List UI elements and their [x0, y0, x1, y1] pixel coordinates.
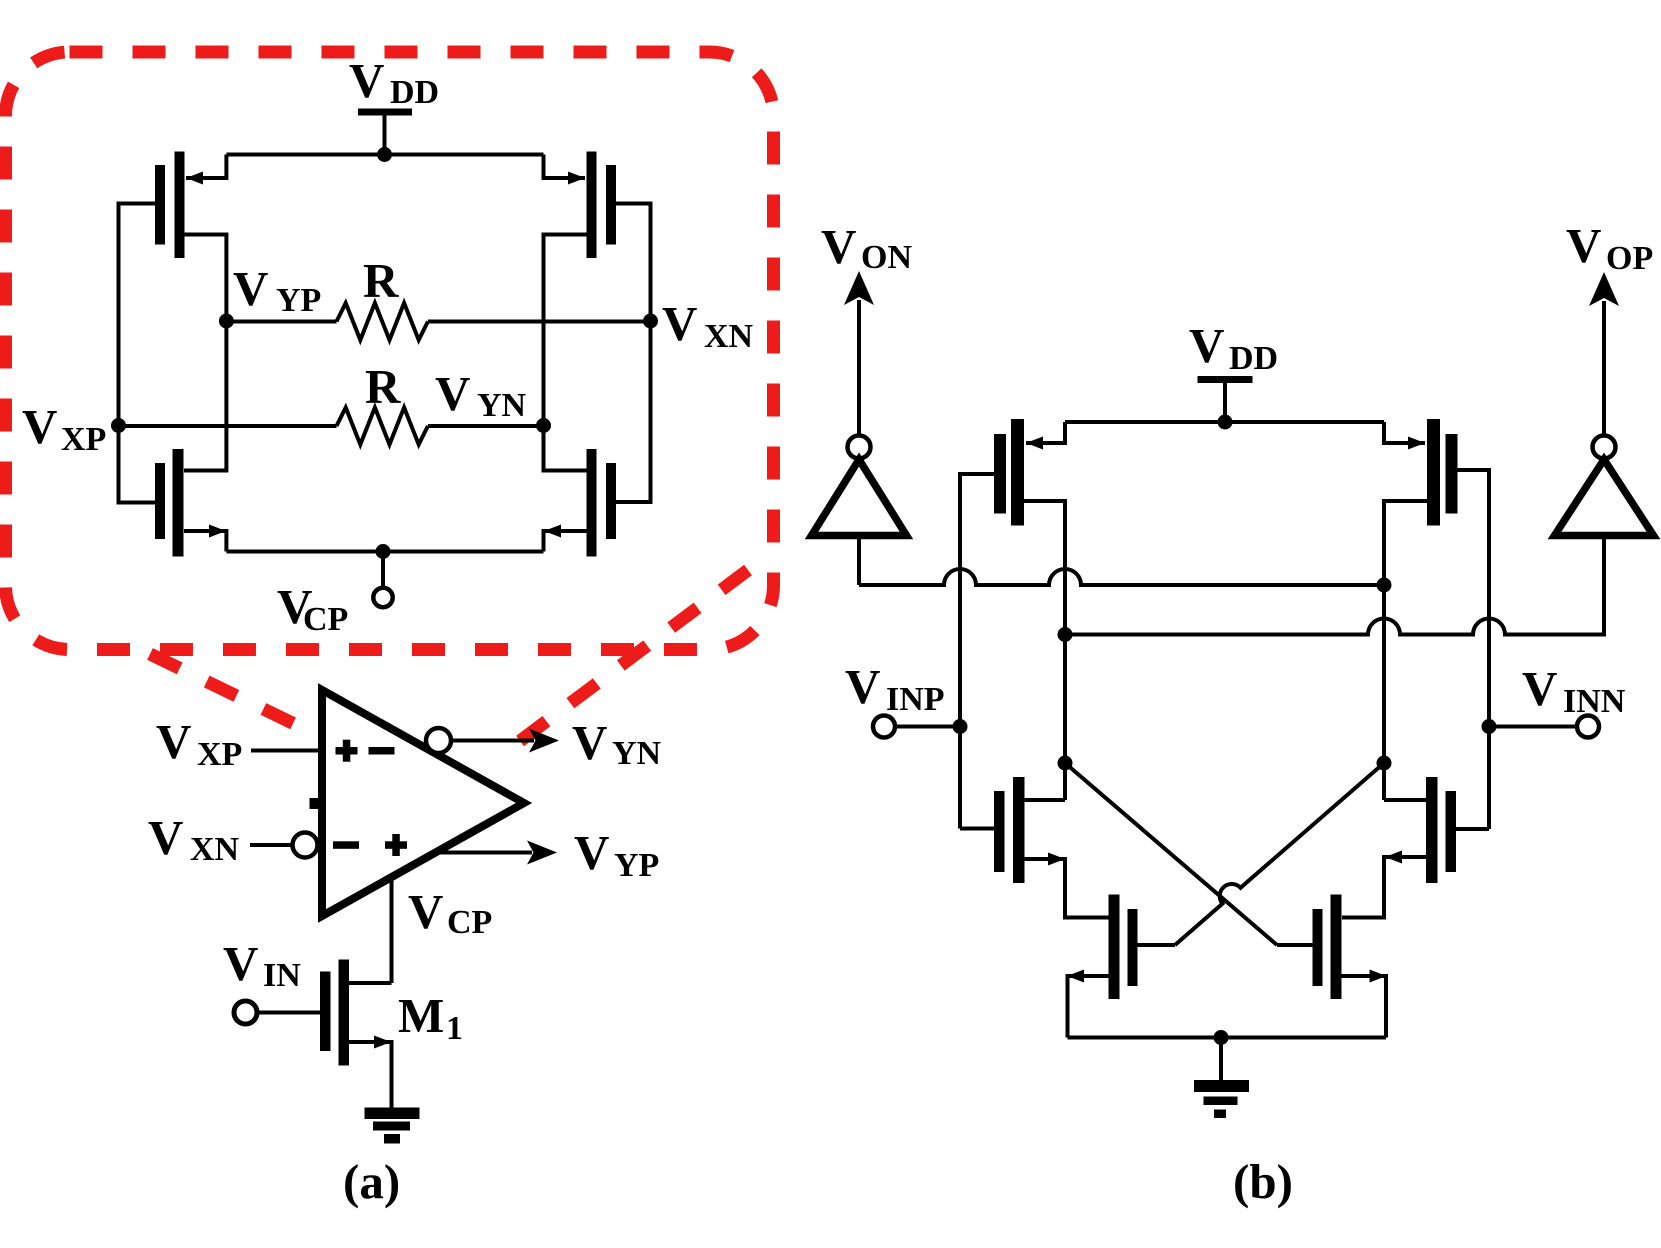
svg-text:XN: XN: [704, 318, 754, 355]
wire gate lead mid-left NMOS: [960, 827, 994, 831]
VDD supply bar (b): [1198, 376, 1253, 383]
terminal VCP: [381, 552, 385, 587]
wire gate lead mid-right NMOS: [1456, 827, 1489, 831]
transistor NMOS bottom-right : channel bar: [1331, 895, 1342, 1000]
terminal VINP: [873, 716, 895, 738]
wire drain lead bottom-right NMOS: [544, 426, 587, 471]
svg-text:OP: OP: [1606, 240, 1653, 277]
wire cross-couple diagonal left-to-right-gate: [1065, 763, 1277, 945]
wire output VYP with arrow: [436, 851, 532, 855]
node VDD junction: [377, 147, 392, 162]
transistor NMOS mid-right : channel bar: [1426, 777, 1438, 883]
svg-text:V: V: [156, 714, 191, 769]
svg-text:V: V: [1189, 318, 1224, 373]
svg-text:YP: YP: [276, 282, 321, 319]
wire source lead M1: [349, 1042, 392, 1108]
svg-text:V: V: [349, 53, 384, 108]
wire/arrow output VON: [857, 300, 861, 436]
wire source lead bottom-left NMOS: [1068, 976, 1109, 1038]
wire/arrow output VOP: [1602, 301, 1606, 436]
inverter left: [848, 436, 871, 459]
wire drain lead top-right PMOS: [544, 235, 587, 426]
tick on comparator left edge: [310, 798, 320, 809]
svg-text:V: V: [845, 659, 880, 714]
wire drain lead top-left PMOS: [185, 235, 227, 322]
svg-text:V: V: [408, 884, 443, 939]
transistor NMOS bottom-left : channel bar: [173, 449, 184, 557]
node cross-couple right: [1377, 756, 1392, 771]
wire source lead bottom-left NMOS: [184, 531, 226, 552]
VDD supply bar: [358, 109, 412, 116]
wire drain lead left PMOS (b): [1024, 501, 1065, 800]
svg-text:V: V: [821, 219, 856, 274]
balloon tail left: [150, 654, 313, 733]
transistor NMOS mid-left : channel bar: [1013, 777, 1025, 883]
wire output VYN with arrow: [451, 739, 534, 743]
wire gate stub bottom-right NMOS: [1277, 943, 1313, 947]
wire source lead left PMOS (b): [1026, 422, 1065, 443]
svg-text:INP: INP: [886, 681, 945, 718]
svg-text:YP: YP: [614, 847, 659, 884]
transistor NMOS mid-right : gate bar: [1446, 791, 1457, 872]
wire gate lead top-right PMOS: [616, 204, 651, 322]
plus sign input2: [385, 841, 407, 849]
transistor NMOS bottom-right : gate bar: [606, 463, 616, 539]
balloon tail right: [504, 570, 748, 753]
svg-text:M: M: [398, 988, 444, 1043]
svg-text:V: V: [435, 366, 470, 421]
transistor PMOS top-right : gate bar: [606, 165, 616, 245]
svg-text:V: V: [662, 296, 697, 351]
transistor PMOS top-left : channel bar: [175, 152, 185, 259]
wire input VXP: [251, 749, 318, 753]
wire bottom rail (b): [1068, 1036, 1387, 1040]
svg-text:YN: YN: [612, 735, 662, 772]
node VINN: [1482, 719, 1497, 734]
transistor M1 : gate bar: [320, 972, 331, 1052]
wire upper cross line with hops: [859, 569, 1384, 585]
wire lower cross line with hops: [1065, 536, 1604, 635]
wire gate lead right PMOS (b): [1456, 470, 1489, 829]
red dashed balloon: [6, 52, 774, 650]
wire top rail: [226, 153, 543, 157]
transistor PMOS top-right : channel bar: [587, 152, 597, 259]
transistor PMOS right (b) : gate bar: [1446, 434, 1458, 514]
node VYN: [536, 418, 551, 433]
svg-text:(a): (a): [343, 1154, 400, 1209]
svg-text:1: 1: [446, 1010, 463, 1047]
wire top rail (b): [1065, 420, 1384, 424]
node right drain to upper line: [1377, 578, 1392, 593]
transistor PMOS right (b) : channel bar: [1427, 419, 1440, 526]
node VDD junction (b): [1218, 415, 1233, 430]
svg-text:XN: XN: [190, 831, 240, 868]
op-amp comparator triangle: [322, 690, 524, 916]
node ground junction (b): [1214, 1030, 1229, 1045]
node VINP: [953, 719, 968, 734]
plus sign input1: [336, 747, 358, 755]
svg-text:V: V: [223, 936, 258, 991]
svg-text:IN: IN: [263, 957, 301, 994]
svg-text:CP: CP: [447, 904, 492, 941]
node VXN: [643, 314, 658, 329]
wire drain lead M1: [349, 981, 392, 985]
wire source lead top-right PMOS: [544, 155, 586, 179]
svg-text:V: V: [148, 810, 183, 865]
svg-text:V: V: [22, 399, 57, 454]
transistor PMOS top-left : gate bar: [155, 165, 165, 245]
wire inverter-L input: [857, 536, 861, 586]
svg-text:DD: DD: [390, 74, 439, 111]
wire drain lead mid-right NMOS: [1384, 798, 1426, 802]
transistor NMOS bottom-right : gate bar: [1313, 909, 1323, 986]
transistor NMOS mid-left : gate bar: [994, 791, 1005, 872]
svg-text:INN: INN: [1563, 683, 1626, 720]
wire VCP from comparator: [390, 877, 394, 984]
svg-text:ON: ON: [861, 239, 912, 276]
wire source lead bottom-right NMOS: [1342, 976, 1387, 1038]
wire source lead top-left PMOS: [186, 155, 226, 179]
wire VYP row: [226, 320, 336, 324]
ground (a): [365, 1108, 420, 1120]
wire gate lead top-left PMOS: [119, 204, 156, 426]
wire gate lead bottom-right NMOS: [616, 321, 651, 502]
svg-text:R: R: [363, 253, 399, 308]
wire source lead mid-left NMOS: [1025, 859, 1109, 918]
wire source lead right PMOS (b): [1384, 422, 1425, 443]
transistor NMOS bottom-left : gate bar: [1128, 909, 1138, 986]
wire drain lead bottom-left NMOS: [184, 321, 226, 471]
resistor R bottom: [337, 408, 428, 445]
wire drain lead mid-left NMOS: [1025, 798, 1066, 802]
bubble input2: [250, 843, 293, 847]
wire drain lead right PMOS (b): [1384, 501, 1427, 800]
svg-text:CP: CP: [303, 601, 348, 638]
svg-text:YN: YN: [477, 387, 527, 424]
transistor PMOS left (b) : channel bar: [1011, 419, 1024, 526]
svg-text:(b): (b): [1233, 1154, 1293, 1209]
svg-text:XP: XP: [197, 736, 242, 773]
svg-text:V: V: [1522, 661, 1557, 716]
wire gate stub bottom-left NMOS: [1138, 943, 1176, 947]
node cross-couple left: [1058, 756, 1073, 771]
node left drain to lower line: [1058, 627, 1073, 642]
wire bottom rail: [226, 550, 543, 554]
svg-text:V: V: [1566, 218, 1601, 273]
svg-text:V: V: [574, 825, 609, 880]
wire gate lead left PMOS (b): [960, 474, 994, 829]
ground (b): [1219, 1038, 1223, 1081]
transistor M1 : channel bar: [339, 960, 350, 1066]
svg-text:XP: XP: [61, 421, 106, 458]
resistor R top: [337, 303, 428, 340]
svg-text:R: R: [365, 359, 401, 414]
node VYP: [219, 314, 234, 329]
bubble output1: [426, 728, 451, 753]
wire gate lead bottom-left NMOS: [119, 426, 156, 503]
minus sign input1: [369, 747, 395, 755]
wire source lead bottom-right NMOS: [544, 531, 587, 552]
transistor NMOS bottom-right : channel bar: [587, 449, 597, 557]
wire gate lead M1 + terminal VIN: [259, 1011, 320, 1015]
minus sign input2: [333, 841, 359, 849]
wire cross-couple diagonal right-to-left-gate with hop: [1175, 763, 1384, 945]
transistor PMOS left (b) : gate bar: [994, 434, 1006, 514]
transistor NMOS bottom-left : gate bar: [155, 463, 165, 539]
inverter right: [1593, 436, 1616, 459]
wire source lead mid-right NMOS: [1342, 857, 1426, 918]
node VCP junction: [376, 544, 391, 559]
wire VXP row: [119, 424, 337, 428]
svg-text:V: V: [572, 715, 607, 770]
node VXP: [111, 418, 126, 433]
transistor NMOS bottom-left : channel bar: [1109, 895, 1120, 1000]
svg-text:DD: DD: [1229, 340, 1278, 377]
terminal VINN: [1577, 716, 1599, 738]
svg-text:V: V: [233, 261, 268, 316]
